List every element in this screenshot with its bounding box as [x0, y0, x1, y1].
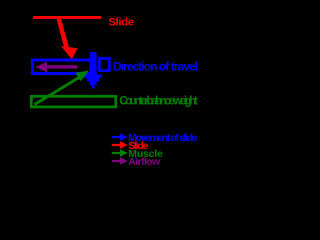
svg-text:Airflow: Airflow [128, 156, 161, 168]
blue down arrow bar [90, 52, 97, 75]
svg-text:Slide: Slide [109, 17, 135, 29]
green box [31, 96, 116, 107]
small blue box [99, 58, 109, 70]
red pointer arrowhead [61, 46, 78, 59]
green arrowhead [76, 71, 89, 82]
legend row 4: purple arrow [112, 160, 121, 162]
red label line over tube [33, 16, 101, 19]
red pointer arrow shaft [57, 19, 69, 48]
svg-text:Counterbalance weight: Counterbalance weight [119, 96, 198, 108]
legend row 2: red arrow [112, 144, 121, 146]
green arrow shaft [35, 78, 80, 105]
svg-text:Direction of travel: Direction of travel [113, 60, 198, 74]
purple arrow head [35, 62, 47, 72]
blue down arrowhead [84, 75, 102, 89]
purple arrow shaft [46, 65, 78, 68]
legend row 3: green arrow [112, 152, 121, 154]
legend row 1: blue arrow [112, 136, 121, 138]
tube (blue outline) [33, 60, 92, 74]
